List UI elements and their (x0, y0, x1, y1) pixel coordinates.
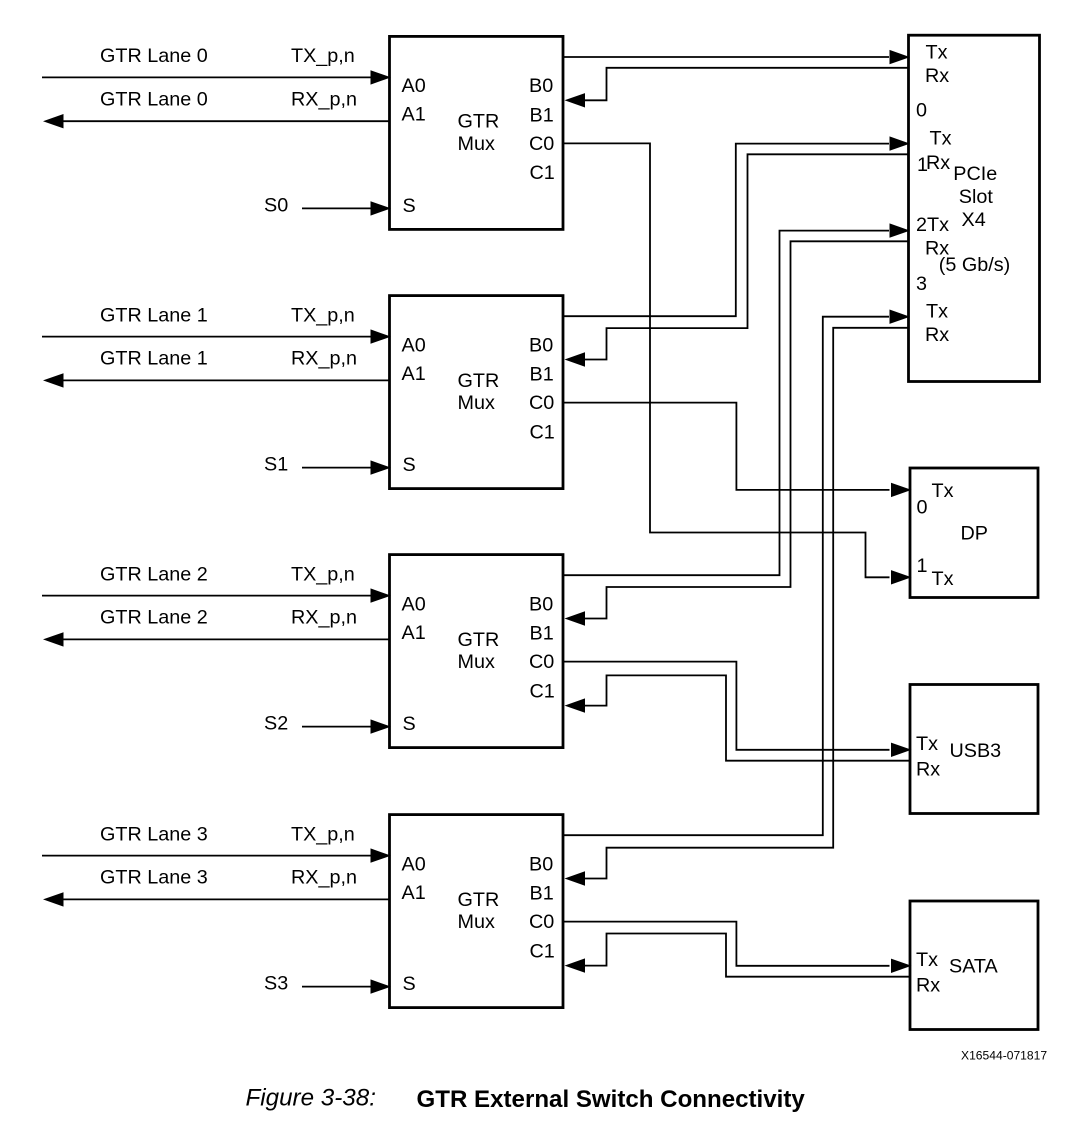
wire GTR Lane 2 TX_p,n into mux A0 (42, 595, 371, 597)
svg-text:C1: C1 (530, 421, 555, 443)
PCIe Slot X4 box (909, 35, 1040, 381)
wire mux3 B0 to PCIe lane2 Tx (563, 231, 889, 576)
svg-text:C1: C1 (530, 940, 555, 962)
svg-text:Rx: Rx (925, 324, 949, 346)
svg-text:GTR: GTR (458, 889, 500, 911)
wire PCIe lane1 Rx to mux2 B1 (583, 154, 909, 359)
svg-text:Slot: Slot (959, 186, 994, 208)
wire mux3 C0 to USB3 Tx (563, 662, 890, 750)
svg-text:3: 3 (916, 273, 927, 295)
wire GTR Lane 0 RX_p,n out of mux A1 (63, 120, 390, 122)
svg-text:S1: S1 (264, 454, 288, 476)
svg-text:Mux: Mux (458, 911, 495, 933)
wire S2 select into mux S pin (302, 726, 371, 728)
svg-text:Tx: Tx (916, 733, 938, 755)
wire mux1 C0 to DP lane1 Tx (563, 143, 890, 577)
svg-text:A0: A0 (402, 334, 426, 356)
wire GTR Lane 0 TX_p,n into mux A0 (42, 76, 371, 78)
wire S1 select into mux S pin (302, 467, 371, 469)
svg-text:C0: C0 (529, 392, 554, 414)
svg-text:B0: B0 (529, 853, 553, 875)
wire PCIe lane3 Rx to mux4 B1 (583, 328, 909, 879)
svg-text:GTR: GTR (458, 629, 500, 651)
wire mux4 B0 to PCIe lane3 Tx (563, 317, 889, 836)
wire USB3 Rx to mux3 C1 (583, 675, 910, 760)
svg-text:B1: B1 (530, 883, 554, 905)
svg-text:PCIe: PCIe (953, 163, 997, 185)
wire SATA Rx to mux4 C1 (583, 934, 910, 977)
svg-text:GTR Lane 2: GTR Lane 2 (100, 563, 208, 585)
svg-text:S2: S2 (264, 713, 288, 735)
svg-text:Rx: Rx (926, 152, 950, 174)
svg-text:C0: C0 (529, 911, 554, 933)
wire PCIe lane2 Rx to mux3 B1 (583, 241, 909, 618)
svg-text:GTR Lane 0: GTR Lane 0 (100, 88, 208, 110)
svg-text:A0: A0 (402, 75, 426, 97)
GTR Mux U1 box (390, 36, 564, 229)
svg-text:GTR Lane 1: GTR Lane 1 (100, 348, 208, 370)
svg-text:GTR: GTR (458, 111, 500, 133)
svg-text:GTR: GTR (458, 370, 500, 392)
DP box (910, 468, 1038, 598)
wire GTR Lane 2 RX_p,n out of mux A1 (63, 638, 390, 640)
svg-text:Rx: Rx (916, 759, 940, 781)
wire S0 select into mux S pin (302, 207, 371, 209)
svg-text:B0: B0 (529, 334, 553, 356)
wire S3 select into mux S pin (302, 986, 371, 988)
svg-text:Mux: Mux (458, 392, 495, 414)
wire mux2 C0 to DP lane0 Tx (563, 403, 890, 490)
svg-text:C0: C0 (529, 133, 554, 155)
svg-text:C0: C0 (529, 651, 554, 673)
GTR Mux U4 box (390, 815, 564, 1008)
svg-text:A1: A1 (402, 363, 426, 385)
svg-text:B1: B1 (530, 104, 554, 126)
svg-text:S: S (403, 713, 416, 735)
svg-text:GTR Lane 3: GTR Lane 3 (100, 823, 208, 845)
wire GTR Lane 1 RX_p,n out of mux A1 (63, 379, 390, 381)
USB3 box (910, 685, 1038, 814)
wire mux4 C0 to SATA Tx (563, 922, 890, 966)
svg-text:USB3: USB3 (950, 740, 1002, 762)
wire PCIe lane0 Rx to mux1 B1 (583, 68, 909, 101)
svg-text:RX_p,n: RX_p,n (291, 867, 357, 889)
svg-text:C1: C1 (530, 162, 555, 184)
svg-text:1: 1 (917, 555, 928, 577)
SATA box (910, 901, 1038, 1030)
svg-text:A0: A0 (402, 593, 426, 615)
svg-text:GTR Lane 2: GTR Lane 2 (100, 607, 208, 629)
wire GTR Lane 3 RX_p,n out of mux A1 (63, 898, 390, 900)
svg-text:2Tx: 2Tx (916, 214, 949, 236)
svg-text:S: S (403, 195, 416, 217)
GTR Mux U3 box (390, 555, 564, 748)
svg-text:S: S (403, 454, 416, 476)
svg-text:B1: B1 (530, 364, 554, 386)
svg-text:TX_p,n: TX_p,n (291, 45, 355, 67)
svg-text:Mux: Mux (458, 133, 495, 155)
svg-text:X16544-071817: X16544-071817 (961, 1049, 1047, 1063)
svg-text:Tx: Tx (930, 127, 952, 149)
wire mux2 B0 to PCIe lane1 Tx (563, 144, 889, 317)
svg-text:1: 1 (917, 154, 928, 176)
svg-text:B1: B1 (530, 623, 554, 645)
svg-text:Tx: Tx (926, 42, 948, 64)
svg-text:B0: B0 (529, 75, 553, 97)
svg-text:0: 0 (917, 497, 928, 519)
svg-text:S: S (403, 973, 416, 995)
svg-text:TX_p,n: TX_p,n (291, 563, 355, 585)
svg-text:GTR Lane 0: GTR Lane 0 (100, 45, 208, 67)
svg-text:S0: S0 (264, 194, 288, 216)
svg-text:A1: A1 (402, 104, 426, 126)
svg-text:(5 Gb/s): (5 Gb/s) (939, 254, 1010, 276)
svg-text:Tx: Tx (932, 568, 954, 590)
svg-text:A0: A0 (402, 853, 426, 875)
svg-text:RX_p,n: RX_p,n (291, 348, 357, 370)
svg-text:TX_p,n: TX_p,n (291, 823, 355, 845)
svg-text:B0: B0 (529, 593, 553, 615)
svg-text:GTR Lane 3: GTR Lane 3 (100, 867, 208, 889)
svg-text:Tx: Tx (926, 301, 948, 323)
svg-text:TX_p,n: TX_p,n (291, 304, 355, 326)
svg-text:S3: S3 (264, 973, 288, 995)
svg-text:Figure 3-38:: Figure 3-38: (246, 1085, 376, 1112)
wire GTR Lane 1 TX_p,n into mux A0 (42, 336, 371, 338)
svg-text:DP: DP (961, 523, 988, 545)
wire GTR Lane 3 TX_p,n into mux A0 (42, 855, 371, 857)
wire mux1 B0 to PCIe lane0 Tx (563, 56, 889, 58)
svg-text:0: 0 (916, 100, 927, 122)
svg-text:Tx: Tx (932, 480, 954, 502)
svg-text:Tx: Tx (916, 949, 938, 971)
svg-text:GTR External Switch Connectivi: GTR External Switch Connectivity (417, 1086, 806, 1113)
svg-text:RX_p,n: RX_p,n (291, 88, 357, 110)
svg-text:X4: X4 (962, 209, 986, 231)
GTR Mux U2 box (390, 296, 564, 489)
svg-text:A1: A1 (402, 622, 426, 644)
svg-text:GTR Lane 1: GTR Lane 1 (100, 304, 208, 326)
svg-text:Mux: Mux (458, 651, 495, 673)
svg-text:C1: C1 (530, 680, 555, 702)
svg-text:A1: A1 (402, 882, 426, 904)
svg-text:RX_p,n: RX_p,n (291, 607, 357, 629)
svg-text:SATA: SATA (949, 956, 999, 978)
svg-text:Rx: Rx (916, 975, 940, 997)
svg-text:Rx: Rx (925, 65, 949, 87)
